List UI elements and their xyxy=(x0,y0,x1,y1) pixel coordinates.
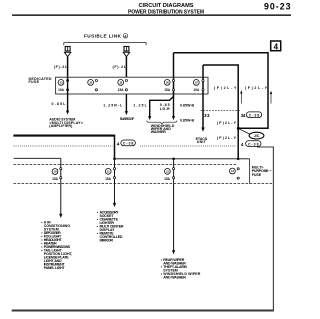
label 0.85W-B upper xyxy=(180,103,195,107)
label 1.25L xyxy=(133,104,147,108)
flow arrow up right xyxy=(270,91,272,104)
label (F)2L-Y top left xyxy=(214,86,237,90)
wire 1.25R-L from F3 down to sunroof arrow xyxy=(125,94,128,115)
svg-text:C-38: C-38 xyxy=(249,113,260,117)
svg-text:UNIT: UNIT xyxy=(197,140,207,144)
pin 4 left xyxy=(117,142,120,147)
svg-text:PANEL LIGHT: PANEL LIGHT xyxy=(44,266,66,270)
fusible link FL2 xyxy=(123,47,130,57)
fuse MP2 15A xyxy=(105,158,116,208)
svg-text:CIRCUIT DIAGRAMS: CIRCUIT DIAGRAMS xyxy=(139,3,194,9)
page link box 4 xyxy=(271,41,281,51)
wire 0.85W-B from F5 down xyxy=(201,94,204,132)
svg-text:•: • xyxy=(97,217,99,221)
wire label (F)-2L left xyxy=(54,65,68,69)
bus line to fuse MP1 xyxy=(14,157,61,159)
svg-text:15A: 15A xyxy=(164,88,171,92)
svg-text:0.85L: 0.85L xyxy=(52,102,67,106)
fusible link FL1 xyxy=(64,47,71,57)
wire through box at 173.5 up to top path xyxy=(173,53,175,98)
header title xyxy=(128,3,204,15)
svg-text:(F)2L-Y: (F)2L-Y xyxy=(214,86,237,90)
svg-text:J/C: J/C xyxy=(254,134,260,138)
svg-text:•: • xyxy=(97,224,99,228)
svg-text:4: 4 xyxy=(274,42,279,51)
svg-text:•: • xyxy=(97,231,99,235)
dedicated fuse box xyxy=(56,77,208,94)
wire 0.85L from F1 down to audio arrow xyxy=(66,77,69,114)
split wire to windshield wiper arrows xyxy=(148,97,175,121)
load list 3 xyxy=(161,258,201,280)
label 0.85W-B lower xyxy=(180,118,195,122)
svg-text:0.85W-B: 0.85W-B xyxy=(180,118,195,122)
svg-text:15A: 15A xyxy=(164,177,171,181)
load list 2 xyxy=(97,210,124,242)
multi-purpose fuse label xyxy=(252,166,272,177)
wire through box at 203 xyxy=(202,65,204,94)
svg-text:4: 4 xyxy=(124,34,126,38)
svg-text:•: • xyxy=(97,210,99,214)
svg-text:LG-R: LG-R xyxy=(160,107,170,111)
label (F)2L-Y mid xyxy=(217,121,237,125)
svg-text:FUSE: FUSE xyxy=(29,80,40,84)
destination audio system xyxy=(49,118,83,129)
svg-text:15A: 15A xyxy=(52,177,59,181)
svg-text:(F)2L-Y: (F)2L-Y xyxy=(217,136,237,140)
fuse F1 10A xyxy=(58,79,69,91)
label 0.85L xyxy=(52,102,67,106)
page border right xyxy=(257,147,273,310)
fuse MP3 15A xyxy=(164,158,175,255)
svg-text:AND WASHER: AND WASHER xyxy=(163,276,186,280)
svg-text:10A: 10A xyxy=(193,88,200,92)
connector C-38 upper xyxy=(246,112,261,118)
load list 1 xyxy=(41,221,72,271)
svg-text:10A: 10A xyxy=(58,88,65,92)
junction node xyxy=(237,127,240,130)
thick feed bus xyxy=(13,135,114,159)
inner wire path to pin 34 xyxy=(203,65,238,159)
bus line to MP fuses xyxy=(115,158,250,160)
outer wire path (F)2L-Y xyxy=(174,53,269,129)
svg-text:(AMPLIFIER): (AMPLIFIER) xyxy=(49,124,73,128)
bracket over fusible links xyxy=(64,43,146,46)
pin 4 right xyxy=(241,142,244,147)
svg-text:15A: 15A xyxy=(105,177,112,181)
svg-text:C-38: C-38 xyxy=(123,142,134,146)
svg-text:4: 4 xyxy=(241,142,244,147)
pin 34 xyxy=(241,113,246,118)
svg-text:0.85W-B: 0.85W-B xyxy=(180,103,195,107)
wire from FL1 down to fuse box xyxy=(67,57,69,77)
label (F)2L-Y lower xyxy=(217,136,237,140)
fuse MP4 xyxy=(230,158,240,180)
page border bottom xyxy=(12,310,274,312)
fuse MP1 15A xyxy=(52,158,62,218)
svg-text:(F)2L-Y: (F)2L-Y xyxy=(245,86,268,90)
dedicated fuse label xyxy=(29,77,52,84)
flow arrow up left xyxy=(240,90,242,103)
svg-text:15A: 15A xyxy=(118,88,125,92)
svg-text:4: 4 xyxy=(117,142,120,147)
svg-text:34: 34 xyxy=(241,113,246,118)
svg-text:FUSE: FUSE xyxy=(252,173,262,177)
destination sunroof xyxy=(120,117,135,121)
pin 33 xyxy=(204,113,210,118)
junction block dotted border xyxy=(14,145,237,147)
connector dashed line xyxy=(201,110,241,112)
fuse F5 10A xyxy=(193,79,204,91)
destination etacs xyxy=(196,137,208,144)
svg-text:SUNROOF: SUNROOF xyxy=(120,117,135,121)
fuse F2 (spare) xyxy=(88,79,98,90)
header rule xyxy=(12,14,291,16)
svg-text:MIRROR: MIRROR xyxy=(100,238,114,242)
svg-text:FUSIBLE LINK: FUSIBLE LINK xyxy=(84,34,122,39)
joint connector oval xyxy=(239,129,264,139)
svg-text:1.25L: 1.25L xyxy=(133,104,147,108)
junction block dashed bottom line xyxy=(14,183,274,185)
multi-purpose fuse box right edge xyxy=(249,159,251,184)
wire from FL2 down to fuse box xyxy=(125,57,127,77)
bracket under wiper arrows xyxy=(147,121,177,124)
svg-text:90-23: 90-23 xyxy=(264,2,291,12)
svg-text:(F)2L-Y: (F)2L-Y xyxy=(217,121,237,125)
svg-text:(F)-2L: (F)-2L xyxy=(113,65,127,69)
fusible link label xyxy=(84,34,128,39)
page number 90-23 xyxy=(264,2,291,12)
fuse F3 15A xyxy=(118,79,128,91)
svg-text:WASHER: WASHER xyxy=(151,130,166,134)
connector C-38 right lower xyxy=(246,141,261,147)
label (F)2L-Y top right xyxy=(245,86,268,90)
destination windshield wiper xyxy=(151,124,175,134)
wire label (F)-2L right xyxy=(113,65,127,69)
svg-text:(F)-2L: (F)-2L xyxy=(54,65,68,69)
fuse F4 15A xyxy=(164,79,174,91)
svg-text:1.25R-L: 1.25R-L xyxy=(103,104,123,108)
label 0.85LG-R xyxy=(160,103,170,111)
label 1.25R-L xyxy=(103,104,123,108)
svg-text:C-38: C-38 xyxy=(248,142,259,146)
connector C-38 left xyxy=(121,140,136,146)
svg-text:33: 33 xyxy=(204,113,210,118)
junction block dashed mid line xyxy=(14,163,237,165)
